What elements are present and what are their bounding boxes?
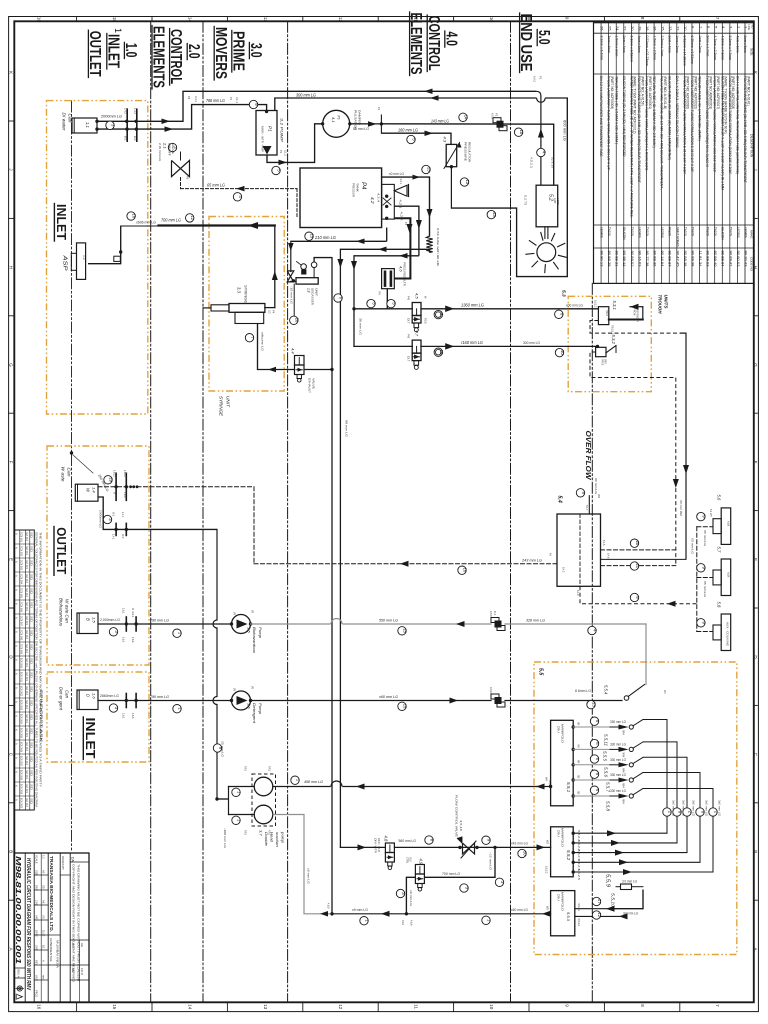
svg-text:AUX: AUX bbox=[727, 572, 731, 578]
balloon 13 regulator drop bbox=[460, 178, 468, 186]
svg-text:1,6,10: 1,6,10 bbox=[123, 470, 126, 477]
svg-text:(PART NO: A-9141-B): (PART NO: A-9141-B) bbox=[663, 76, 667, 109]
orange box DI water inlet unit bbox=[47, 101, 148, 414]
svg-text:5,5,1: 5,5,1 bbox=[566, 782, 571, 793]
svg-text:4,0,2: 4,0,2 bbox=[533, 76, 537, 82]
svg-text:(P): (P) bbox=[233, 688, 236, 691]
svg-text:300 mm LG: 300 mm LG bbox=[296, 92, 317, 97]
flow control valve 4.5.16 bbox=[463, 843, 475, 854]
svg-text:P,2,6: P,2,6 bbox=[424, 318, 427, 324]
svg-text:1mm x 2mm: 1mm x 2mm bbox=[698, 36, 702, 53]
wires suction pump inlets bbox=[217, 798, 229, 800]
svg-text:5,4,2: 5,4,2 bbox=[562, 567, 565, 573]
aux unit 5.8 bbox=[713, 625, 721, 640]
svg-text:PRES.REGULTR: PRES.REGULTR bbox=[403, 262, 407, 286]
svg-text:A: A bbox=[15, 589, 19, 591]
svg-text:5,5,2,5: 5,5,2,5 bbox=[577, 869, 581, 881]
lane separator 4.0/5.0 bbox=[510, 21, 512, 1002]
overflow tank 5.4 bbox=[557, 514, 601, 586]
svg-text:CRU: CRU bbox=[557, 894, 561, 901]
balloon 10 at 5.5.2 inlet bbox=[518, 849, 526, 857]
svg-text:790 mm LG: 790 mm LG bbox=[150, 617, 169, 622]
svg-text:3x0 mm LG: 3x0 mm LG bbox=[718, 800, 721, 816]
third angle projection symbols bbox=[17, 986, 22, 991]
svg-text:P4: P4 bbox=[360, 182, 366, 190]
svg-text:5,5,6: 5,5,6 bbox=[604, 767, 609, 778]
svg-text:5,5: 5,5 bbox=[538, 668, 544, 675]
svg-text:1,6,1: 1,6,1 bbox=[122, 637, 125, 643]
svg-text:ECN 0020: ECN 0020 bbox=[20, 798, 23, 809]
svg-text:LEGRIS: LEGRIS bbox=[637, 227, 641, 238]
wire drop to 4.9 valve 700mm bbox=[424, 847, 495, 877]
node regulator bottom bbox=[450, 165, 453, 168]
svg-text:Can: Can bbox=[67, 468, 72, 478]
svg-text:25: 25 bbox=[607, 26, 612, 31]
svg-text:SD: SD bbox=[30, 728, 33, 734]
svg-text:SD: SD bbox=[30, 616, 33, 622]
svg-text:1.5mm x 2.5mm: 1.5mm x 2.5mm bbox=[652, 36, 656, 61]
svg-text:Can: Can bbox=[65, 690, 70, 699]
svg-text:3,1 PUMP: 3,1 PUMP bbox=[280, 118, 285, 142]
svg-text:10: 10 bbox=[439, 350, 444, 355]
svg-text:TRANSASIA BIO-MEDICALS LTD.: TRANSASIA BIO-MEDICALS LTD. bbox=[49, 856, 54, 932]
wire trough feed line 1 bbox=[354, 308, 412, 310]
svg-text:15: 15 bbox=[112, 17, 117, 23]
lamp to sun stems bbox=[544, 227, 546, 239]
svg-text:90 89 02: 90 89 02 bbox=[630, 251, 634, 267]
svg-text:300 mm LG: 300 mm LG bbox=[523, 341, 540, 345]
svg-text:5,5,2: 5,5,2 bbox=[566, 850, 571, 861]
svg-text:CTRL: CTRL bbox=[406, 857, 409, 864]
svg-text:1,8: 1,8 bbox=[307, 288, 311, 293]
svg-text:W aste: W aste bbox=[61, 467, 66, 483]
svg-text:458 mm LG: 458 mm LG bbox=[304, 779, 323, 784]
exhaust dashed line 65mm from valve 2.1 bbox=[180, 178, 182, 189]
svg-text:ECN 0017: ECN 0017 bbox=[20, 756, 23, 767]
svg-text:EPINDORST ASK: EPINDORST ASK bbox=[39, 690, 43, 744]
svg-text:NR4: NR4 bbox=[622, 730, 624, 735]
svg-text:90 77 38: 90 77 38 bbox=[645, 251, 649, 267]
svg-text:A: A bbox=[15, 799, 19, 801]
svg-text:98 mm LG: 98 mm LG bbox=[345, 420, 349, 437]
svg-text:12: 12 bbox=[338, 17, 343, 23]
svg-text:1,4: 1,4 bbox=[92, 487, 97, 493]
svg-text:2mm x 4mm: 2mm x 4mm bbox=[622, 36, 626, 53]
svg-text:H: H bbox=[8, 266, 13, 269]
svg-text:REGULATOR: REGULATOR bbox=[468, 142, 472, 162]
svg-text:SD: SD bbox=[30, 560, 33, 566]
gray waste line 550mm to 5.5 bbox=[251, 623, 331, 625]
svg-text:330 mm LG: 330 mm LG bbox=[610, 758, 626, 762]
svg-text:B: B bbox=[86, 618, 91, 621]
svg-text:16: 16 bbox=[463, 568, 468, 573]
svg-text:F: F bbox=[8, 461, 13, 464]
svg-text:M98.81.00.00.00.001: M98.81.00.00.00.001 bbox=[14, 856, 23, 964]
svg-text:ECN 0013: ECN 0013 bbox=[20, 700, 23, 711]
wire 210mm elbow down to valve 2.9 bbox=[290, 241, 292, 271]
coil 0.51 tube with 90 elb bbox=[426, 236, 432, 253]
svg-text:1,6,1: 1,6,1 bbox=[122, 608, 125, 614]
svg-text:B: B bbox=[8, 850, 13, 853]
svg-text:20: 20 bbox=[635, 541, 640, 546]
svg-text:1,6,6: 1,6,6 bbox=[131, 637, 134, 643]
svg-text:UNIT: UNIT bbox=[315, 288, 319, 296]
svg-text:1:2: 1:2 bbox=[42, 855, 46, 859]
svg-text:22: 22 bbox=[622, 26, 627, 31]
svg-text:A: A bbox=[42, 960, 46, 962]
node suction pump tee bbox=[215, 797, 218, 800]
svg-text:5,5,4: 5,5,4 bbox=[604, 685, 609, 695]
balloon 15 tank top line bbox=[422, 165, 430, 173]
svg-text:r160 mm LG: r160 mm LG bbox=[461, 340, 484, 345]
svg-text:3,2: 3,2 bbox=[268, 310, 272, 314]
pump 3.1 P1 bbox=[256, 111, 277, 156]
nozzle line 5,5,6 bbox=[572, 763, 575, 766]
svg-text:C4: C4 bbox=[71, 943, 75, 947]
wire regulator down to lamp loop bbox=[450, 167, 452, 208]
wire DI can upper outlet to lamp riser via 300mm line bbox=[97, 91, 536, 121]
svg-text:1,5: 1,5 bbox=[92, 617, 97, 623]
svg-text:10: 10 bbox=[519, 130, 524, 135]
svg-text:1,2: 1,2 bbox=[83, 255, 87, 260]
balloons 3 on trough line 1 bbox=[367, 299, 375, 307]
svg-text:4,8: 4,8 bbox=[384, 836, 389, 842]
svg-text:3.2mm x 4.7mm: 3.2mm x 4.7mm bbox=[728, 36, 732, 61]
svg-text:NO.: NO. bbox=[750, 25, 754, 30]
svg-text:A: A bbox=[15, 715, 19, 717]
svg-text:VALVE: VALVE bbox=[312, 378, 316, 389]
svg-text:12.04: 12.04 bbox=[25, 784, 28, 794]
wire degasser vent to pipe L bbox=[314, 258, 332, 262]
svg-text:9.52mm x 14.29mm: 9.52mm x 14.29mm bbox=[683, 36, 687, 67]
pulsation damper 4.1 bbox=[323, 110, 350, 137]
svg-text:12.04: 12.04 bbox=[25, 756, 28, 766]
svg-text:1,4,3: 1,4,3 bbox=[133, 108, 137, 114]
svg-text:W ,2,6,1: W ,2,6,1 bbox=[131, 608, 134, 618]
svg-text:ECN 001: ECN 001 bbox=[20, 532, 23, 543]
svg-text:SD: SD bbox=[30, 630, 33, 636]
svg-text:(P): (P) bbox=[251, 686, 254, 689]
svg-text:10: 10 bbox=[523, 851, 528, 856]
svg-text:330 mm LG: 330 mm LG bbox=[610, 789, 626, 793]
svg-text:A: A bbox=[15, 617, 19, 619]
aux unit 5.7 bbox=[713, 570, 721, 585]
svg-text:2 W mm LG: 2 W mm LG bbox=[158, 143, 162, 161]
svg-text:5,5,11: 5,5,11 bbox=[604, 734, 609, 746]
balloon 6 on pipe M bbox=[334, 294, 342, 302]
svg-text:3x0 mm LG: 3x0 mm LG bbox=[692, 800, 695, 816]
svg-text:GENERAL TOLERANCES FOR DIMENSI: GENERAL TOLERANCES FOR DIMENSIONS AND TE… bbox=[35, 532, 39, 807]
wire pipe M elbow to 4.8 line bbox=[340, 846, 385, 848]
svg-text:P6: P6 bbox=[186, 176, 190, 180]
pinch fitting 4.5.9 on 550mm line bbox=[491, 618, 499, 623]
svg-text:pump: pump bbox=[281, 831, 286, 844]
valve 2.9 bowtie bbox=[287, 271, 294, 282]
drain riser to aux units bbox=[696, 527, 698, 632]
svg-text:210 mm LG: 210 mm LG bbox=[314, 235, 337, 240]
svg-text:SD: SD bbox=[30, 770, 33, 776]
orange box end-use unit 5.5 bbox=[534, 662, 737, 955]
svg-text:12: 12 bbox=[190, 215, 195, 220]
balloon 1 waste pump line bbox=[173, 629, 181, 637]
svg-text:1,6,9: 1,6,9 bbox=[123, 492, 126, 498]
svg-text:D: D bbox=[86, 694, 91, 697]
svg-text:A: A bbox=[15, 757, 19, 759]
balloon 9 after flow control bbox=[482, 836, 490, 844]
svg-text:'660 mm LG: '660 mm LG bbox=[398, 839, 416, 843]
svg-text:Biohazardous: Biohazardous bbox=[59, 598, 64, 627]
svg-text:12: 12 bbox=[675, 26, 680, 31]
svg-text:SD: SD bbox=[30, 532, 33, 538]
balloon 4 on lamp riser bbox=[537, 148, 545, 156]
waste suction riser to suction pump bbox=[216, 529, 218, 620]
svg-text:A: A bbox=[15, 547, 19, 549]
svg-text:12.04: 12.04 bbox=[25, 686, 28, 696]
svg-text:P1: P1 bbox=[229, 97, 233, 101]
svg-text:ECN 0010: ECN 0010 bbox=[20, 658, 23, 669]
balloon 14 on lamp supply bbox=[459, 113, 467, 121]
svg-text:W-2: W-2 bbox=[121, 534, 124, 539]
wire tank top port to cascade x0mm bbox=[382, 176, 430, 178]
svg-text:4,2 x: 4,2 x bbox=[399, 179, 403, 185]
trough overflow dashed 5.3.1 bbox=[590, 321, 680, 334]
trough 5.3.1 bbox=[598, 307, 608, 325]
svg-text:NR: NR bbox=[577, 722, 579, 726]
svg-text:NR1: NR1 bbox=[244, 830, 247, 835]
svg-text:E: E bbox=[8, 558, 13, 561]
svg-text:5,6: 5,6 bbox=[717, 495, 722, 501]
svg-text:A: A bbox=[15, 687, 19, 689]
orange box syringe unit bbox=[209, 217, 284, 392]
svg-text:-166 mm LG: -166 mm LG bbox=[223, 828, 227, 848]
svg-text:ON/OFF: ON/OFF bbox=[168, 143, 172, 156]
svg-text:P-B: P-B bbox=[407, 296, 410, 301]
svg-text:5,3,1,2: 5,3,1,2 bbox=[594, 300, 597, 308]
column 1.0 centerline bbox=[71, 101, 73, 850]
svg-text:90 89 40: 90 89 40 bbox=[713, 251, 717, 267]
svg-text:P-B: P-B bbox=[407, 334, 410, 339]
nozzle line 5,5,5 bbox=[572, 748, 575, 751]
parts table rows bbox=[736, 23, 738, 284]
balloon 5 at P1 bottom bbox=[272, 166, 280, 174]
svg-text:SHT: SHT bbox=[35, 945, 39, 951]
svg-text:90 89 38: 90 89 38 bbox=[690, 251, 694, 267]
svg-text:12.04: 12.04 bbox=[25, 532, 28, 542]
svg-text:x606 mm LG: x606 mm LG bbox=[136, 221, 156, 225]
balloon 3 on DI line bbox=[106, 121, 114, 129]
svg-text:14: 14 bbox=[187, 1004, 192, 1010]
svg-text:12.04: 12.04 bbox=[25, 602, 28, 612]
fitting 5.5.10 bbox=[621, 884, 632, 890]
svg-text:G: G bbox=[8, 363, 13, 367]
waste can W 1.4 bbox=[75, 484, 98, 501]
svg-text:10: 10 bbox=[560, 350, 565, 355]
detergent inlet can D 1.6 bbox=[77, 690, 98, 710]
svg-text:INLET: INLET bbox=[54, 204, 69, 240]
svg-text:4,5: 4,5 bbox=[415, 293, 420, 299]
svg-text:A: A bbox=[15, 771, 19, 773]
flow arrow trough line 2 bbox=[445, 343, 454, 350]
svg-text:4,6,9: 4,6,9 bbox=[327, 903, 330, 909]
svg-text:16: 16 bbox=[132, 213, 137, 218]
svg-text:A: A bbox=[15, 701, 19, 703]
svg-text:ON/- WTR: ON/- WTR bbox=[374, 838, 377, 853]
DI water can 1.1 bbox=[72, 118, 97, 133]
pinch valve 4.7 bbox=[412, 340, 421, 353]
svg-text:4,2,1: 4,2,1 bbox=[399, 200, 403, 210]
svg-text:(PART NO: ACF00008): (PART NO: ACF00008) bbox=[610, 76, 614, 109]
svg-text:ECN 003: ECN 003 bbox=[20, 560, 23, 571]
revision table bbox=[14, 530, 34, 810]
svg-text:NR1: NR1 bbox=[401, 920, 404, 925]
balloon 3 above valve 2.1 bbox=[168, 143, 176, 151]
svg-text:FROM: FROM bbox=[633, 309, 635, 316]
svg-text:36 mm LG: 36 mm LG bbox=[359, 318, 363, 335]
junction dots on x43 line bbox=[458, 846, 461, 849]
svg-text:4,3: 4,3 bbox=[443, 137, 448, 143]
svg-text:NR4: NR4 bbox=[622, 783, 624, 788]
svg-text:5,2 73: 5,2 73 bbox=[524, 195, 528, 206]
wire ASP to suction line bbox=[88, 226, 121, 264]
svg-text:(PART NO: A-9141): (PART NO: A-9141) bbox=[746, 76, 750, 106]
balloon 13 on lamp loop bottom bbox=[487, 210, 495, 218]
valve 4.9 bbox=[415, 865, 424, 875]
svg-text:DIA 1 X 3 DIA 3 : VERSILIC SIL: DIA 1 X 3 DIA 3 : VERSILIC SILICON TUBIN… bbox=[675, 76, 679, 148]
svg-text:0.51 tube with 90 elb: 0.51 tube with 90 elb bbox=[436, 228, 440, 267]
svg-text:A: A bbox=[8, 948, 13, 951]
svg-text:90 16 64: 90 16 64 bbox=[660, 251, 664, 267]
svg-text:4,7: 4,7 bbox=[415, 331, 420, 337]
balloon 19 waste vent bbox=[104, 476, 112, 484]
svg-text:MAIN - WTR - PMP: MAIN - WTR - PMP bbox=[261, 126, 264, 152]
balloon 3 waste suction bbox=[103, 515, 111, 523]
wire trough feed line 2 bbox=[354, 345, 412, 347]
svg-text:1,6,1: 1,6,1 bbox=[122, 713, 125, 719]
svg-text:PRESSURE: PRESSURE bbox=[464, 142, 468, 161]
tank 5.4 drain dashed bbox=[580, 586, 697, 604]
svg-text:90 89 11: 90 89 11 bbox=[622, 251, 626, 267]
svg-text:4,2,2: 4,2,2 bbox=[400, 212, 404, 222]
balloons at 5.4 inlets bbox=[630, 539, 638, 547]
svg-text:E: E bbox=[753, 558, 758, 561]
svg-text:x6 mm LG: x6 mm LG bbox=[409, 890, 412, 906]
tank 5.4 top stub W2 bbox=[588, 496, 590, 514]
svg-text:5,5,8: 5,5,8 bbox=[606, 801, 611, 812]
svg-text:REV: REV bbox=[35, 960, 39, 966]
manifold 5.5.2 outputs bbox=[572, 832, 575, 835]
svg-text:TYGON: TYGON bbox=[728, 227, 732, 237]
svg-text:PRESSUR: PRESSUR bbox=[352, 183, 356, 198]
manifold 5.5.3 return lines bbox=[575, 908, 612, 910]
svg-text:A: A bbox=[15, 673, 19, 675]
svg-text:HYDRAULIC CIRCUIT DIAGRAM FOR: HYDRAULIC CIRCUIT DIAGRAM FOR RESPONS 92… bbox=[25, 858, 31, 991]
svg-text:NR: NR bbox=[577, 791, 579, 795]
svg-text:SILICON: SILICON bbox=[622, 227, 626, 240]
aux unit 5.6 bbox=[713, 519, 721, 534]
svg-text:ECN 0018: ECN 0018 bbox=[20, 770, 23, 781]
svg-text:600 mm LG: 600 mm LG bbox=[563, 120, 567, 142]
svg-text:05 mm LG: 05 mm LG bbox=[703, 530, 706, 546]
manifold 5.5.3 bbox=[551, 891, 575, 936]
pressure tank 4.2 P4 bbox=[300, 168, 382, 228]
svg-text:26: 26 bbox=[600, 26, 605, 31]
svg-text:1360 mm LG: 1360 mm LG bbox=[461, 303, 485, 308]
svg-text:DEGASSER: DEGASSER bbox=[311, 288, 315, 305]
svg-text:SD: SD bbox=[30, 672, 33, 678]
svg-text:1,4,4: 1,4,4 bbox=[121, 512, 124, 518]
svg-text:Det er gent: Det er gent bbox=[59, 687, 64, 711]
svg-text:3mm x 5mm: 3mm x 5mm bbox=[743, 36, 747, 53]
svg-text:90 mm LG: 90 mm LG bbox=[594, 478, 598, 494]
svg-text:COPYRIGHT AND DESIGN RIGHT IN: COPYRIGHT AND DESIGN RIGHT IN THIS DOCUM… bbox=[72, 864, 75, 982]
svg-text:OUTLET: OUTLET bbox=[54, 527, 69, 574]
svg-text:ECN 0014: ECN 0014 bbox=[20, 714, 23, 725]
svg-text:788 mm LG: 788 mm LG bbox=[206, 98, 226, 103]
svg-text:12: 12 bbox=[597, 912, 602, 917]
parts table column lines bbox=[594, 32, 754, 34]
svg-text:3x0 mm LG: 3x0 mm LG bbox=[623, 911, 638, 915]
detergent pump line 790mm bbox=[98, 700, 232, 702]
balloon 15 on 210mm line bbox=[305, 232, 313, 240]
svg-text:ASSY: ASSY bbox=[556, 198, 560, 205]
svg-text:5,5,5: 5,5,5 bbox=[603, 751, 608, 762]
svg-text:ECN 006: ECN 006 bbox=[20, 602, 23, 613]
border zone ticks left/right bbox=[9, 120, 15, 122]
arrow into 5.5.2 bbox=[537, 844, 546, 850]
svg-text:EX.T: EX.T bbox=[407, 356, 410, 362]
border zone ticks top/bottom bbox=[76, 17, 78, 22]
svg-text:1mm x 3mm: 1mm x 3mm bbox=[675, 36, 679, 53]
balloon 6 on 5,5,5 bbox=[590, 739, 598, 747]
svg-text:x9 mm LG: x9 mm LG bbox=[352, 908, 368, 912]
svg-text:330 mm LG: 330 mm LG bbox=[610, 773, 626, 777]
svg-text:TYGON: TYGON bbox=[630, 227, 634, 237]
svg-text:14: 14 bbox=[187, 17, 192, 23]
svg-text:VG: VG bbox=[42, 915, 46, 919]
svg-text:330 mm LG: 330 mm LG bbox=[610, 742, 626, 746]
svg-text:Pump: Pump bbox=[258, 703, 263, 715]
svg-text:TYGON: TYGON bbox=[645, 227, 649, 237]
svg-text:15: 15 bbox=[403, 628, 408, 633]
svg-text:F.B.O: F.B.O bbox=[80, 968, 84, 976]
svg-text:13: 13 bbox=[492, 212, 497, 217]
parts table frame bbox=[594, 23, 754, 284]
svg-text:Detergent: Detergent bbox=[252, 703, 257, 724]
svg-text:DATE: DATE bbox=[35, 930, 39, 937]
svg-text:x60 mm LG: x60 mm LG bbox=[378, 694, 398, 699]
svg-text:W aste Can: W aste Can bbox=[65, 599, 70, 624]
degasser top fittings bbox=[301, 264, 307, 270]
svg-text:12.04: 12.04 bbox=[25, 672, 28, 682]
node top of 1.0 column line bbox=[70, 451, 73, 454]
svg-text:5,3: 5,3 bbox=[561, 290, 567, 297]
nozzle line 5,5,8 bbox=[572, 794, 575, 797]
svg-text:11.02: 11.02 bbox=[42, 930, 46, 937]
flow arrow DI lower line bbox=[165, 126, 174, 132]
svg-text:SD: SD bbox=[30, 602, 33, 608]
svg-text:TYGON: TYGON bbox=[690, 227, 694, 237]
fittings on waste vent line bbox=[115, 473, 117, 500]
wire 4.8 to manifold 5.5.2 x43mm bbox=[394, 846, 550, 848]
pressure regulator 4.6 bbox=[382, 269, 395, 289]
svg-text:12.04: 12.04 bbox=[25, 658, 28, 668]
flow arrow trough line 1 bbox=[445, 306, 454, 313]
svg-text:12.04: 12.04 bbox=[25, 714, 28, 724]
balloon 9 on riser bbox=[213, 744, 221, 752]
svg-text:5,3,1: 5,3,1 bbox=[612, 301, 617, 310]
svg-text:AK: AK bbox=[42, 900, 46, 904]
svg-text:2.5mm x 4mm: 2.5mm x 4mm bbox=[660, 36, 664, 57]
